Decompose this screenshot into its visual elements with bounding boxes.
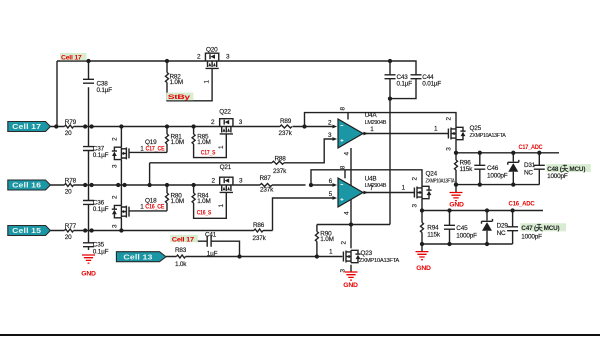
svg-text:R86: R86 <box>253 222 265 229</box>
net label StBy <box>166 93 193 102</box>
svg-text:8: 8 <box>340 107 347 111</box>
wire U4A output to Q25 gate <box>363 133 448 135</box>
capacitor C43 <box>385 74 413 88</box>
svg-text:237k: 237k <box>273 168 287 175</box>
svg-text:3: 3 <box>226 54 230 61</box>
svg-text:NC: NC <box>524 169 533 176</box>
junction C17_ADC bottom / R96 gnd <box>454 182 458 186</box>
wire R82 branch to Q20 gate net StBy <box>167 61 212 101</box>
svg-text:1000pF: 1000pF <box>521 233 542 240</box>
svg-text:1.0M: 1.0M <box>197 139 210 146</box>
svg-text:1: 1 <box>140 204 144 211</box>
svg-text:LM2904B: LM2904B <box>365 120 387 126</box>
wire C48 branch <box>538 153 540 185</box>
wire Q24 drain to C16_ADC rail <box>421 199 423 211</box>
junction C17_ADC top / C46 <box>478 151 482 155</box>
junction Cell13 wire / R90 <box>315 254 319 258</box>
svg-text:2: 2 <box>112 137 119 141</box>
wire R84 branch to Q21 gate net C16_S <box>194 185 227 218</box>
wire Q23 drain from pin4 node <box>350 225 352 249</box>
junction C16_ADC top / D29 <box>485 208 489 212</box>
transistor Q23 <box>329 241 400 273</box>
svg-text:LM2904B: LM2904B <box>365 183 387 189</box>
junction C17_ADC bottom / D31 <box>511 182 515 186</box>
wire Q18 source lead <box>120 218 122 231</box>
svg-text:C17_S: C17_S <box>201 149 216 156</box>
junction C17_ADC bottom / C46 <box>478 182 482 186</box>
wire R81 branch <box>166 127 168 153</box>
transistor Q20 <box>197 46 230 83</box>
wire C16_ADC top rail <box>422 210 543 212</box>
junction top rail / C38 <box>86 59 90 63</box>
svg-text:1: 1 <box>204 80 211 84</box>
wire C45 branch <box>449 211 451 245</box>
svg-text:3: 3 <box>239 178 243 185</box>
svg-text:C17_ADC: C17_ADC <box>519 144 544 151</box>
svg-text:1.0M: 1.0M <box>170 79 183 86</box>
svg-text:GND: GND <box>416 265 431 272</box>
wire Q19 source lead <box>120 160 122 185</box>
power flag Cell 16 <box>8 180 51 190</box>
resistor R86 <box>253 222 267 242</box>
op-amp U4A <box>328 107 387 156</box>
svg-text:R89: R89 <box>280 118 292 125</box>
junction C16_ADC top / C47 <box>510 208 514 212</box>
svg-text:GND: GND <box>343 282 358 289</box>
svg-text:Q24: Q24 <box>426 171 438 178</box>
wire R96 branch <box>455 153 457 185</box>
junction C16_ADC bottom / D29 <box>485 242 489 246</box>
svg-text:237k: 237k <box>260 186 274 193</box>
wire U4B feedback node to Q24 source <box>311 170 422 187</box>
junction rail3 / C36 a <box>83 228 87 232</box>
wire C41 branch net Cell 17 <box>172 241 240 256</box>
svg-text:NC: NC <box>497 230 506 237</box>
svg-text:237k: 237k <box>253 235 267 242</box>
svg-text:Cell 15: Cell 15 <box>12 227 41 235</box>
svg-text:R94: R94 <box>427 224 439 231</box>
svg-text:3: 3 <box>112 164 119 168</box>
svg-text:StBy: StBy <box>168 94 191 101</box>
svg-text:0.1µF: 0.1µF <box>397 81 413 88</box>
junction rail1 / flag vertical <box>54 124 58 128</box>
junction rail2 / feedback <box>309 183 313 187</box>
junction C43 bottom <box>388 96 392 100</box>
svg-text:Q23: Q23 <box>361 250 373 257</box>
junction C17_ADC top / R96 <box>454 151 458 155</box>
wire rail3 net Cell 15 <box>50 230 272 232</box>
svg-text:0.1µF: 0.1µF <box>93 152 109 159</box>
capacitor C35 <box>83 242 109 256</box>
svg-text:R78: R78 <box>65 177 77 184</box>
svg-text:1: 1 <box>329 249 333 256</box>
svg-text:Cell 17: Cell 17 <box>61 54 82 61</box>
junction top rail / R82 <box>165 59 169 63</box>
svg-text:20: 20 <box>65 234 72 241</box>
transistor Q24 <box>402 171 455 208</box>
resistor R77 <box>65 223 77 241</box>
wire C17_ADC bottom rail <box>456 185 539 192</box>
svg-text:MCU): MCU) <box>569 166 585 173</box>
svg-text:Cell 16: Cell 16 <box>12 182 41 190</box>
wire C17_ADC top rail <box>456 152 559 154</box>
wire Q19 gate to R81 <box>129 151 168 153</box>
svg-text:8: 8 <box>339 165 346 169</box>
resistor R83 <box>175 247 187 268</box>
svg-text:1.0k: 1.0k <box>175 261 187 268</box>
ground below Q23 <box>343 272 358 289</box>
wire net Cell 13 from flag through R83 to Q23 gate <box>166 256 342 258</box>
wire R94 branch <box>421 211 423 245</box>
transistor Q25 <box>434 117 506 151</box>
svg-text:C16_S: C16_S <box>197 210 212 217</box>
svg-text:2: 2 <box>112 195 119 199</box>
wire R80 branch <box>166 185 168 211</box>
svg-text:2: 2 <box>211 119 215 126</box>
wire Q18 gate to R80 <box>129 210 168 212</box>
svg-text:1: 1 <box>434 126 438 133</box>
junction rail2 / R88 vertical <box>147 183 151 187</box>
svg-text:1.0M: 1.0M <box>320 236 333 243</box>
transistor Q18 <box>112 195 157 228</box>
svg-text:C16_CE: C16_CE <box>145 204 164 211</box>
svg-text:Q25: Q25 <box>470 125 482 132</box>
svg-text:2: 2 <box>197 54 201 61</box>
svg-text:ZXMP10A13FTA: ZXMP10A13FTA <box>470 133 507 139</box>
svg-text:Q20: Q20 <box>206 46 218 53</box>
svg-text:3: 3 <box>112 224 119 228</box>
svg-text:ZXMP10A13FTA: ZXMP10A13FTA <box>426 179 455 185</box>
wire Q24 leads <box>421 185 423 188</box>
wire C47 branch <box>512 211 514 245</box>
svg-text:2: 2 <box>412 177 419 181</box>
svg-text:Cell 17: Cell 17 <box>12 123 41 131</box>
wire U4A feedback node to Q25 source <box>305 113 457 128</box>
wire Q19 drain lead <box>120 127 122 148</box>
svg-text:1000pF: 1000pF <box>547 173 568 180</box>
svg-text:Q22: Q22 <box>219 108 231 115</box>
wire C46 branch <box>479 153 481 185</box>
junction rail1 / Q19 <box>119 124 123 128</box>
resistor R82 <box>166 73 183 87</box>
svg-text:Cell 13: Cell 13 <box>123 253 152 261</box>
wire D31 branch <box>512 153 514 185</box>
wire vertical from top rail to Cell17 rail <box>56 61 58 127</box>
svg-text:1.0M: 1.0M <box>171 139 184 146</box>
wire capacitor column C36 <box>88 185 90 231</box>
wire rail2 net Cell 16 <box>50 184 332 186</box>
svg-text:115k: 115k <box>427 231 441 238</box>
junction rail2 / Q18 b <box>122 183 126 187</box>
junction rail3 / C35 b <box>89 228 93 232</box>
wire U4B output to Q24 gate <box>363 192 414 194</box>
junction rail1 / R85 <box>191 124 195 128</box>
svg-text:R87: R87 <box>260 175 272 182</box>
wire U4B pin8 stub <box>344 170 346 179</box>
junction rail3 / Q18 <box>119 228 123 232</box>
svg-text:GND: GND <box>449 202 464 209</box>
wire R85 branch to Q22 gate net C17_S <box>194 127 227 158</box>
junction rail1 / C37 a <box>83 124 87 128</box>
svg-text:237k: 237k <box>279 130 293 137</box>
resistor R80 <box>166 192 184 205</box>
junction rail2 / R84 <box>191 183 195 187</box>
net label Cell 17 (top rail) <box>60 53 87 61</box>
svg-text:4: 4 <box>343 211 350 215</box>
svg-text:2: 2 <box>328 119 332 126</box>
svg-text:6: 6 <box>329 178 333 185</box>
power flag Cell 17 <box>8 122 51 132</box>
wire U4A pin3 branch via R88 <box>150 139 333 185</box>
svg-text:0.01µF: 0.01µF <box>422 81 441 88</box>
junction rail2 / Q19 a <box>116 183 120 187</box>
resistor R81 <box>166 133 184 146</box>
resistor R96 <box>455 159 474 173</box>
resistor R87 <box>260 175 275 194</box>
svg-text:U4B: U4B <box>365 176 377 183</box>
resistor R94 <box>421 223 441 239</box>
op-amp U4B <box>329 165 387 215</box>
resistor R85 <box>192 133 211 146</box>
svg-text:C45: C45 <box>456 225 468 232</box>
svg-text:MCU): MCU) <box>544 225 560 232</box>
resistor R90 <box>315 231 333 244</box>
svg-text:R79: R79 <box>65 119 77 126</box>
junction rail2 / R80 <box>165 183 169 187</box>
junction C16_ADC bottom / C45 <box>447 242 451 246</box>
transistor Q19 <box>112 137 157 168</box>
svg-text:1.0M: 1.0M <box>171 198 184 205</box>
svg-text:R88: R88 <box>275 156 287 163</box>
diode D29 <box>482 219 509 237</box>
svg-text:C46: C46 <box>487 165 499 172</box>
capacitor C38 <box>83 79 112 94</box>
diode D31 <box>508 160 536 176</box>
junction C17_ADC top / D31 <box>511 151 515 155</box>
resistor R89 <box>279 118 293 137</box>
wire Q25 drain to C17_ADC rail <box>455 140 457 153</box>
svg-text:1: 1 <box>370 126 374 133</box>
junction C16_ADC top / Q24 <box>420 208 424 212</box>
wire long vertical to pin4 node <box>389 99 391 225</box>
junction top rail / C43 <box>388 59 392 63</box>
svg-text:C16_ADC: C16_ADC <box>509 200 536 207</box>
power flag Cell 15 <box>8 226 51 236</box>
wire capacitor column C35 <box>88 231 90 251</box>
junction Cell13 wire / C41 <box>237 254 241 258</box>
svg-text:1: 1 <box>402 185 406 192</box>
transistor Q21 <box>212 164 244 207</box>
svg-text:2: 2 <box>212 178 216 185</box>
svg-text:4: 4 <box>343 152 350 156</box>
wire D29 branch <box>486 211 488 245</box>
svg-text:D29: D29 <box>497 223 509 230</box>
ground C16_ADC section <box>416 252 432 272</box>
resistor R78 <box>65 177 77 195</box>
svg-text:ZXMP10A13FTA: ZXMP10A13FTA <box>359 258 400 264</box>
capacitor C45 <box>444 225 477 240</box>
svg-text:1µF: 1µF <box>207 250 218 257</box>
net label Cell 17 (C41 branch) <box>170 235 198 243</box>
resistor R84 <box>192 192 211 205</box>
capacitor C46 <box>474 165 507 179</box>
svg-text:1: 1 <box>218 145 225 149</box>
svg-text:115k: 115k <box>460 166 474 173</box>
svg-text:3: 3 <box>328 132 332 139</box>
wire C43 C44 decoupling loop <box>390 61 416 99</box>
wire U4A pin8 stub <box>347 113 349 120</box>
junction rail2 / C36 b <box>89 183 93 187</box>
svg-text:2: 2 <box>341 241 348 245</box>
wire R90 branch <box>316 225 318 257</box>
svg-text:1: 1 <box>218 204 225 208</box>
wire capacitor column C38 <box>88 61 90 127</box>
svg-text:0.1µF: 0.1µF <box>97 87 113 94</box>
svg-text:20: 20 <box>65 188 72 195</box>
svg-text:C41: C41 <box>205 232 217 239</box>
capacitor C44 <box>411 74 442 88</box>
wire Q18 drain lead <box>120 185 122 205</box>
svg-text:U4A: U4A <box>365 112 378 119</box>
svg-text:Cell 17: Cell 17 <box>172 236 195 243</box>
wire capacitor column C37 <box>88 127 90 186</box>
wire Q25 gate-source leads <box>455 126 457 129</box>
svg-text:D31: D31 <box>524 162 536 169</box>
svg-text:Q21: Q21 <box>220 164 232 171</box>
bottom frame line <box>0 334 600 336</box>
capacitor C41 <box>205 232 218 258</box>
junction rail2 / C37 a <box>83 183 87 187</box>
svg-text:5: 5 <box>329 191 333 198</box>
capacitor C36 <box>83 199 109 213</box>
svg-text:3: 3 <box>412 204 419 208</box>
wire Q23 source to ground <box>350 265 352 272</box>
svg-text:1: 1 <box>140 146 144 153</box>
wire rail1 net Cell 17 (flag to op-amp pin2) <box>50 126 332 128</box>
wire top rail net Cell 17 <box>57 60 390 62</box>
capacitor C47 <box>507 223 566 240</box>
svg-text:C47 (: C47 ( <box>521 225 537 232</box>
junction C17_ADC top / C48 <box>537 151 541 155</box>
svg-text:R77: R77 <box>65 223 77 230</box>
power flag Cell 13 <box>116 252 166 262</box>
capacitor C37 <box>83 145 109 159</box>
svg-text:0.1µF: 0.1µF <box>93 248 109 255</box>
svg-text:GND: GND <box>81 271 96 278</box>
svg-text:3: 3 <box>239 119 243 126</box>
junction rail1 / feedback <box>302 124 306 128</box>
svg-text:1000pF: 1000pF <box>456 232 477 239</box>
svg-text:2: 2 <box>446 117 453 121</box>
transistor Q22 <box>211 108 243 149</box>
wire C16_ADC bottom rail <box>422 244 513 251</box>
svg-text:R83: R83 <box>175 247 187 254</box>
junction C16_ADC top / C45 <box>447 208 451 212</box>
junction rail1 / R81 <box>165 124 169 128</box>
capacitor C48 <box>534 164 591 180</box>
ground C17_ADC section <box>449 193 464 209</box>
ground below C35 <box>81 255 96 278</box>
wire op-amp V- column pin4 <box>350 148 352 225</box>
resistor R79 <box>65 119 77 137</box>
wire pin4 node horizontal <box>317 224 390 226</box>
junction rail1 / C38 b <box>89 124 93 128</box>
svg-text:20: 20 <box>65 130 72 137</box>
junction pin4 node <box>349 222 353 226</box>
svg-text:0.1µF: 0.1µF <box>93 206 109 213</box>
svg-text:1.0M: 1.0M <box>197 198 210 205</box>
svg-text:3: 3 <box>446 147 453 151</box>
svg-text:1000pF: 1000pF <box>487 172 508 179</box>
junction C16_ADC bottom / R94 gnd <box>420 242 424 246</box>
resistor R88 <box>272 156 287 175</box>
wire U4B pin5 branch via R86 <box>273 198 333 231</box>
svg-text:C17_CE: C17_CE <box>146 146 165 153</box>
svg-text:C48 (: C48 ( <box>547 166 563 173</box>
